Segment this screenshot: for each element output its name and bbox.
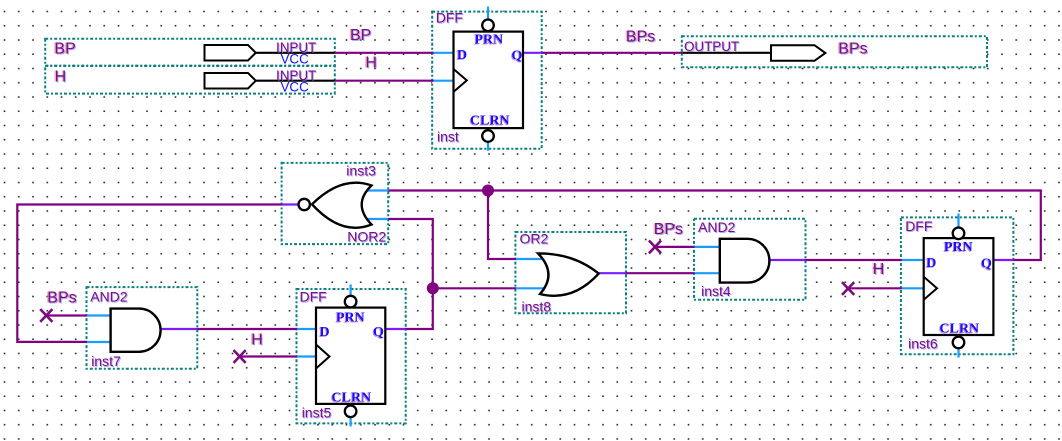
pin label INPUT (H): [276, 68, 317, 84]
label OR2: [520, 230, 550, 247]
cyan stub input1 AND2 inst4: [694, 246, 720, 248]
cyan stub PRN DFF inst6: [957, 214, 959, 228]
svg-text:BP: BP: [54, 41, 75, 58]
svg-text:PRN: PRN: [475, 32, 504, 47]
input pin symbol H: [205, 73, 256, 89]
violet stub DFF inst Q: [523, 52, 542, 54]
svg-text:BPs: BPs: [47, 289, 76, 306]
cyan stub PRN DFF inst5: [350, 285, 352, 297]
cyan stub input2 OR2 inst8: [515, 287, 545, 289]
svg-text:BP: BP: [350, 27, 371, 44]
net label BP: [349, 27, 373, 45]
svg-text:D: D: [457, 48, 467, 63]
svg-text:BPs: BPs: [654, 221, 683, 238]
input pin symbol BP: [205, 45, 256, 61]
violet stub DFF inst6 Q: [993, 259, 1013, 261]
selection box DFF inst: [432, 12, 542, 149]
svg-text:NOR2: NOR2: [347, 229, 386, 245]
wire AND2 inst7 output to DFF inst5 D: [196, 328, 297, 330]
svg-text:H: H: [365, 55, 377, 72]
label DFF (inst6): [905, 218, 933, 235]
svg-text:AND2: AND2: [90, 288, 128, 304]
svg-text:AND2: AND2: [698, 219, 736, 235]
violet stub NOR2 output: [282, 203, 299, 205]
wire junction B to OR2 in2: [433, 287, 516, 289]
cyan stub D input DFF inst: [432, 52, 454, 54]
svg-text:DFF: DFF: [905, 218, 932, 234]
wire black output pin: [682, 52, 772, 54]
output pin symbol BPs: [771, 45, 825, 61]
wire dangling H to DFF inst5 clock: [240, 355, 298, 357]
AND2 inst4 gate: [720, 239, 770, 283]
cyan stub D input DFF inst6: [901, 259, 925, 261]
svg-text:DFF: DFF: [436, 10, 463, 26]
DFF inst5 clock triangle: [316, 345, 330, 369]
pin label INPUT (BP): [276, 40, 317, 56]
NOR2 inst3 gate (mirrored): [312, 183, 372, 228]
net label H (inst5 clock): [250, 331, 264, 349]
svg-text:inst3: inst3: [346, 162, 376, 178]
X mark dangling wire AND2 inst7 input: [40, 309, 52, 322]
X mark dangling wire DFF inst5 clock: [234, 350, 246, 363]
DFF inst body: [454, 32, 524, 129]
label inst3: [346, 162, 377, 179]
DFF inst CLRN bubble: [482, 130, 494, 142]
port label Q (inst): [511, 49, 523, 65]
wire DFF inst Q to output pin BPs: [541, 52, 683, 54]
label DFF (inst5): [300, 289, 328, 306]
port label PRN (inst5): [335, 311, 365, 327]
selection box DFF inst5: [297, 289, 406, 423]
junction node A: [482, 185, 494, 197]
selection box input pin H: [45, 66, 335, 94]
label inst6: [908, 336, 939, 353]
port label D (inst5): [319, 325, 330, 341]
svg-text:H: H: [251, 331, 263, 348]
selection box OR2 inst8: [515, 232, 626, 313]
violet stub DFF inst5 Q: [385, 328, 405, 330]
svg-text:D: D: [926, 256, 936, 271]
wire junction A down to OR2 in1: [488, 191, 516, 260]
label NOR2: [347, 229, 387, 246]
wire NOR2 in1 horizontal long: [388, 189, 1042, 191]
junction node B: [427, 282, 439, 294]
wire black input pin BP to edge: [255, 52, 336, 54]
wire NOR2 in2 to vertical: [388, 219, 433, 329]
DFF inst5 PRN bubble: [345, 296, 357, 308]
DFF inst5 body: [316, 308, 385, 404]
wire dangling BPs to AND2 inst7 in1: [46, 314, 87, 316]
wire net BP to DFF inst D: [335, 52, 434, 54]
X mark dangling wire AND2 inst4 input: [649, 241, 661, 254]
wire black input pin H to edge: [255, 80, 336, 82]
wire vertical right to DFF inst6 Q: [1012, 191, 1040, 261]
cyan stub input2 AND2 inst7: [87, 341, 111, 343]
DFF inst6 PRN bubble: [953, 228, 965, 240]
net label BPs (inst4 input): [652, 221, 684, 239]
net label BPs (inst7 input): [46, 289, 78, 307]
label DFF (inst): [436, 10, 464, 27]
wire OR2 output to AND2 inst4 in2: [625, 272, 695, 274]
cyan stub CLRN DFF inst5: [350, 418, 352, 427]
svg-text:inst: inst: [437, 129, 459, 145]
selection box DFF inst6: [901, 217, 1014, 354]
cyan stub input2 NOR2 inst3: [364, 218, 388, 220]
svg-text:CLRN: CLRN: [332, 391, 372, 406]
label inst: [437, 129, 460, 146]
cyan stub CLRN DFF inst: [487, 142, 489, 151]
cyan stub input1 NOR2 inst3: [364, 189, 388, 191]
OR2 inst8 gate: [538, 253, 599, 295]
svg-text:inst8: inst8: [522, 299, 552, 315]
selection box NOR2 inst3: [282, 163, 389, 244]
DFF inst6 clock triangle: [924, 277, 937, 300]
port label CLRN (inst): [469, 113, 510, 129]
label inst7: [91, 353, 122, 370]
cyan stub D input DFF inst5: [297, 328, 317, 330]
wire dangling BPs to AND2 inst4 in1: [655, 246, 695, 248]
wire net H to DFF inst clock: [335, 80, 434, 82]
violet stub OR2 output: [598, 272, 626, 274]
port label Q (inst6): [980, 257, 992, 273]
svg-text:D: D: [320, 325, 330, 340]
violet stub AND2 inst4 output: [770, 259, 806, 261]
pin name BPs (output): [837, 41, 869, 59]
violet stub AND2 inst7 output: [161, 328, 198, 330]
svg-text:OUTPUT: OUTPUT: [684, 39, 739, 54]
net label H: [364, 55, 378, 73]
label AND2 (inst7): [90, 288, 129, 305]
cyan stub clock input DFF inst6: [901, 287, 925, 289]
svg-text:DFF: DFF: [300, 289, 327, 305]
port label CLRN (inst5): [331, 391, 372, 407]
svg-text:PRN: PRN: [944, 240, 973, 255]
svg-text:CLRN: CLRN: [940, 321, 980, 336]
port label PRN (inst): [474, 32, 504, 48]
selection box AND2 inst7: [87, 287, 198, 369]
port label Q (inst5): [372, 325, 384, 341]
svg-text:H: H: [873, 261, 885, 278]
cyan stub clock input DFF inst5: [297, 355, 317, 357]
svg-text:CLRN: CLRN: [470, 113, 510, 128]
pin name BP: [53, 41, 77, 59]
label AND2 (inst4): [698, 219, 737, 236]
wire AND2 inst4 output to DFF inst6 D: [805, 259, 902, 261]
cyan stub PRN DFF inst: [487, 7, 489, 20]
svg-text:inst7: inst7: [91, 353, 121, 369]
svg-text:inst4: inst4: [701, 283, 731, 299]
svg-text:OR2: OR2: [520, 230, 549, 246]
label inst4: [701, 283, 732, 300]
svg-text:BPs: BPs: [838, 41, 867, 58]
cyan stub input2 AND2 inst4: [694, 272, 720, 274]
svg-text:BPs: BPs: [626, 29, 655, 46]
net label BPs (top): [624, 29, 656, 47]
cyan stub input1 AND2 inst7: [87, 314, 111, 316]
label inst5: [302, 405, 333, 422]
selection box input pin BP: [45, 39, 335, 66]
svg-text:inst6: inst6: [908, 336, 938, 352]
AND2 inst7 gate: [111, 309, 161, 352]
cyan stub clock input DFF inst: [432, 80, 454, 82]
wire NOR2 output to AND2 inst7 in2: [17, 205, 282, 342]
svg-text:Q: Q: [981, 257, 992, 272]
label inst8: [522, 299, 553, 316]
net label H (inst6 D): [871, 261, 885, 279]
pin label OUTPUT: [684, 39, 740, 55]
svg-text:PRN: PRN: [336, 311, 365, 326]
port label CLRN (inst6): [939, 321, 980, 337]
svg-text:VCC: VCC: [281, 80, 310, 95]
DFF inst PRN bubble: [482, 20, 494, 32]
svg-text:Q: Q: [373, 325, 384, 340]
svg-text:inst5: inst5: [302, 405, 332, 421]
port label D (inst): [456, 48, 467, 64]
svg-text:VCC: VCC: [281, 52, 310, 67]
pin name H: [53, 69, 67, 87]
svg-text:H: H: [55, 69, 67, 86]
selection box output pin BPs: [682, 36, 987, 67]
wire dangling to DFF inst6 clock: [848, 287, 902, 289]
cyan stub CLRN DFF inst6: [957, 349, 959, 358]
DFF inst6 CLRN bubble: [953, 337, 965, 349]
cyan stub input1 OR2 inst8: [515, 258, 545, 260]
X mark dangling wire DFF inst6 clock: [842, 282, 854, 295]
port label D (inst6): [925, 256, 936, 272]
port label PRN (inst6): [943, 240, 973, 256]
DFF inst clock triangle: [454, 69, 467, 92]
DFF inst5 CLRN bubble: [345, 406, 357, 418]
NOR2 inst3 output bubble: [299, 199, 310, 210]
selection box AND2 inst4: [694, 219, 806, 300]
DFF inst6 body: [924, 238, 994, 335]
svg-text:Q: Q: [512, 49, 523, 64]
